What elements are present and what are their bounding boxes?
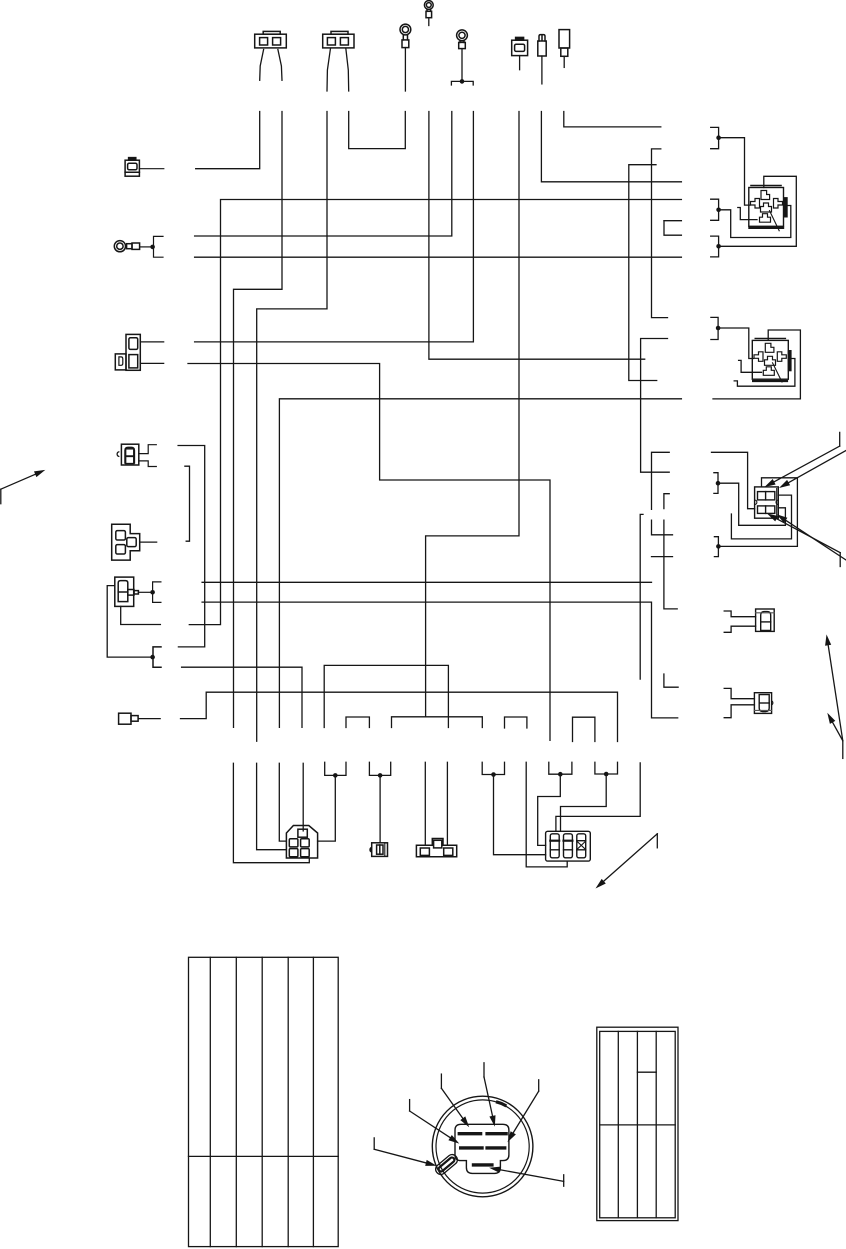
pin U2 top [765,343,774,352]
leader L4 [508,1080,539,1142]
arrow callout right pair [825,634,843,758]
connector P8 3-cavity [416,839,456,857]
ring terminal R2 [424,1,433,18]
leader L6 [489,1167,564,1187]
wire right stub RA [641,339,670,473]
junction dot node R4 [150,245,155,250]
ring terminal R1 [400,24,411,48]
wire right stub RF [664,494,669,509]
junction dot node K4 [150,590,155,595]
bracket U1-left small [664,220,681,222]
wire connector K4 bottom lead [121,606,161,624]
junction dot node J2 [716,208,721,213]
wire resume W279 [279,763,286,841]
wire W526 [526,762,567,867]
wire K4 lead [138,591,152,593]
wire J6 to connector P3 top loop [718,478,797,547]
connector T1 2-pin [255,31,287,48]
table F2 inner [600,1031,676,1217]
table F1 row divider [189,1155,339,1157]
arrow callout to P9 [596,834,658,889]
wire K2 lead bottom [139,461,157,467]
wire K6 lead bottom [140,362,163,364]
wire bus B7 [195,112,474,342]
wire right stub RH [664,674,678,687]
wire bus B10 [564,112,661,127]
op-amp U2 relay box [752,338,791,382]
wire K3 lead [140,541,157,543]
wire P5 lead bottom [724,705,754,718]
connector K4 stacked [115,577,161,606]
leader L1 [484,1063,496,1127]
table F1 column line 2 [235,957,237,1246]
wire bus B6 [195,112,452,237]
wire P3 right pin loop [731,495,791,539]
connector P10 index notch [498,1102,506,1105]
wire stub S1 [185,466,190,541]
bracket J1 [711,127,719,148]
wire K5 lead [138,718,160,720]
wire n-link N1 [324,665,448,727]
wire net Y582 [202,581,651,583]
wire K6 lead top [140,341,163,343]
pin U2 bottom [763,367,774,376]
table F2 column line 1 [617,1031,619,1217]
wire net Y199 [189,200,681,625]
pin U2 right [777,352,786,362]
wire K1 lead [139,168,163,170]
wire n-link N5 [573,717,595,741]
connector C7 bullet [538,35,546,56]
wire ring terminal R1 lead [404,48,406,91]
bracket Q5 [595,762,618,774]
bracket Q3 [482,762,504,774]
wire n-link N3 wide [392,717,483,728]
junction dot node J1 [716,135,721,140]
pin U1 bottom [760,214,771,223]
ring terminal R4 side view [114,236,163,257]
junction dot node Q5 [604,772,609,777]
connector K3 3-cavity [112,524,157,560]
bracket J2 [711,199,719,220]
wire connector C8 lead [563,56,565,67]
wire U2 top pin loop [713,330,800,399]
bracket K4 [153,582,161,603]
table F1 column line 1 [209,957,211,1246]
table F1 column line 4 [287,957,289,1246]
bracket J5 [714,473,718,494]
wire connector C7 lead [541,56,543,84]
leader L2 [441,1074,469,1127]
blade slot row3 [474,1163,492,1166]
wire net Y667 [182,667,302,727]
wire net Y452 right segment [712,452,755,508]
connector P6 house 4-cavity [286,826,317,859]
bracket J3 [711,236,719,257]
wire resume W233 [233,763,309,862]
wire bus B4 U-link [349,112,406,149]
leader L3 [410,1100,460,1144]
table F1 column line 5 [312,957,314,1246]
wire pigtail connector T1 left [260,50,264,81]
table F2 column line 2 [636,1031,638,1217]
WIRES-TOP [188,18,681,742]
connector C6 plug [512,37,528,55]
junction dot node D-left [150,655,155,660]
wire net Y692 [181,692,618,741]
connector C8 sleeve [559,30,570,57]
wire pigtail connector T2 right [346,48,349,91]
wire bus B5 [429,112,645,360]
junction dot node J5 [716,481,721,486]
wire R4 lead [140,246,153,248]
wire net Y667 lower segment [302,763,304,831]
op-amp U1 relay box [749,186,787,231]
table F2 outer [597,1027,678,1220]
fuse box table F1 [189,957,339,1246]
wire J3 to relay U1 top pin [719,176,797,246]
wire Q4 stem to P9 [538,774,561,845]
blade slot row1 left [459,1132,480,1135]
arrow callout to P3 top pins [765,432,846,488]
wire net Y257 [195,256,682,258]
pin U1 top [761,191,770,200]
keyway slot [434,1152,460,1176]
wire connector K4 left lead to junction [107,586,152,658]
connector K5 stub [119,713,161,724]
table F2 row divider [600,1124,676,1126]
wire P4 lead bottom [724,626,755,632]
junction dot node R3 [460,79,465,84]
connector K2 2-pin with jog leads [117,444,156,466]
wire P5 lead top [724,688,754,698]
wire J5 to connector P3 lower-right pin [718,483,785,525]
wire resume W256 [257,763,287,849]
wire right bar RE [652,556,673,558]
wire ring terminal R3 lead [461,49,463,82]
wire U2 bottom pin feed [739,360,762,372]
wire right stub RD [652,520,673,535]
wire R3 strap [451,81,473,85]
junction dot node J6 [716,544,721,549]
wire net Y399 [279,399,681,728]
bracket Q2 [369,762,390,775]
wire Q3 stem to P9 [494,775,546,855]
wire ring terminal R2 lead [428,18,430,26]
connector P5 [754,693,772,714]
connector P10 center body [455,1124,509,1173]
wire right stub RG [664,520,677,609]
wire bus B2 from T1 right pin down left side [234,112,283,728]
wire Q2 stem to P7 [379,775,381,842]
pin U1 center [761,203,772,212]
wire K2 lead top [139,445,157,454]
arrow callout left [1,470,46,504]
blade slot row1 right [487,1132,506,1135]
wire pigtail connector T1 right [278,50,282,81]
connector K1 small plug [125,158,164,177]
wire n-link N2 [346,717,369,728]
pin U1 left [751,199,760,209]
junction dot node Q1 [333,773,338,778]
wire net Y602 [202,602,678,718]
connector P10 circular outer [432,1096,533,1197]
wire connector K3 bracket feed [178,446,205,647]
junction dot node Q3 [491,772,496,777]
pin U2 left [754,352,763,362]
wire U1 bottom pin feed [738,208,757,220]
junction dot node J3 [716,244,721,249]
wire right trunk RT [640,514,643,679]
junction dot node J4 [716,326,721,331]
bracket J6 [714,537,718,557]
pin U1 right [774,199,783,209]
connector T2 2-pin [323,31,354,48]
bracket R4 [154,236,164,257]
wire W425 [424,762,426,845]
wire bus B9 [541,112,681,182]
junction dot node Q4 [558,772,563,777]
bracket Q4 [549,762,572,774]
wire bus B8 [426,112,519,717]
wire J4 to relay U2 left pin [718,328,753,359]
wire pigtail connector T2 left [327,48,331,91]
ring terminal R3 [457,30,468,49]
leader L5 [374,1138,436,1166]
wire W447 [446,762,448,845]
junction dot node Q2 [378,773,383,778]
bracket K4-left [153,647,161,667]
wire U2 right pin loop [734,359,795,387]
connector P10 circular inner [436,1100,529,1193]
connector P4 [756,609,775,631]
table F1 column line 3 [261,957,263,1246]
bracket J4 [711,317,718,339]
bracket Q1 [325,762,346,775]
wire bus B1 from T1 left pin to connector K1 [196,112,260,169]
wire Q5 stem to P9 [561,774,607,831]
wire net Y363 [188,364,550,741]
pin U2 center [765,356,776,365]
connector P7 small [370,843,388,857]
blade slot row2 right [487,1146,505,1149]
blade slot row2 left [461,1146,482,1149]
connector K6 2-cavity with side tab [115,334,163,370]
wire right stub RI [629,165,657,381]
wire bus B3 [257,112,327,742]
wire n-link N4 [505,717,527,728]
wire right trunk RT lower [556,763,640,831]
arrow callout to P3 bottom pins [767,514,846,567]
wire connector C6 lead [519,56,521,70]
wire right stub RC [652,452,670,509]
connector P3 2x2 [755,487,779,518]
connector P9 6-cavity [546,831,591,861]
table F2 cell divider [637,1071,656,1073]
wire Q1 stem to P6 [318,775,336,841]
table F2 column line 3 [655,1031,657,1217]
wire J1 to relay U1 left pin [719,138,750,205]
wire right stub RB [652,149,668,318]
wire J2 to relay U1 right pin [719,206,791,238]
wire P4 lead top [724,611,755,617]
